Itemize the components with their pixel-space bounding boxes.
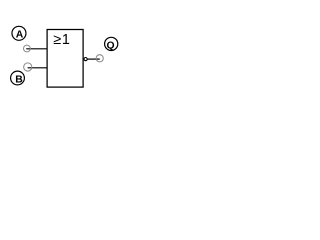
wire input B to gate	[28, 67, 48, 69]
svg-text:Q: Q	[107, 41, 115, 52]
wire input A to gate	[26, 48, 47, 50]
or-gate U1 body	[47, 30, 83, 88]
node port circle at output	[96, 55, 103, 62]
node port circle at input B	[24, 63, 32, 71]
output pin bubble	[84, 58, 87, 61]
svg-text:≥: ≥	[53, 32, 61, 48]
svg-text:B: B	[15, 75, 23, 86]
input pin A circle	[12, 26, 26, 40]
svg-text:1: 1	[62, 32, 70, 48]
input pin B circle	[11, 71, 25, 85]
node port circle at input A	[24, 45, 31, 52]
wire gate output to node	[86, 58, 100, 60]
svg-text:A: A	[16, 30, 24, 41]
output pin Q circle	[105, 37, 118, 50]
